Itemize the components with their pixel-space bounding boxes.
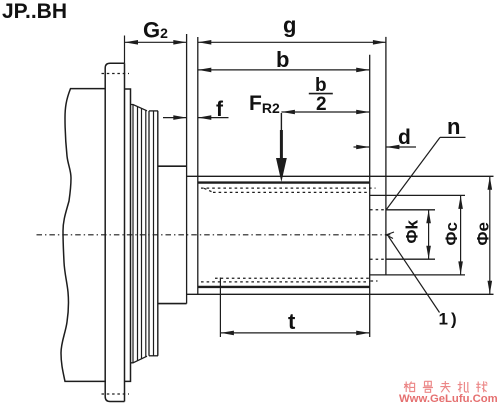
end disc top edge + phi-c extension [370, 194, 465, 196]
g right arrow [373, 40, 386, 45]
hidden bore line top outer [201, 187, 376, 189]
seal ring v2 [137, 107, 139, 361]
G2 extension above flange [124, 36, 126, 64]
washer left edge + G2 extension (x=186.6) [186, 34, 188, 304]
shaft end face + dimension extension (x=369.7) [369, 55, 371, 337]
washer right edge / cylinder left face + g,b extension (x=197.8) [197, 37, 199, 295]
seal block top edge [149, 110, 158, 112]
t left arrow [221, 331, 234, 336]
hub bottom edge [158, 303, 187, 305]
f right arrow (outside, points left) [198, 115, 211, 120]
svg-text:2: 2 [316, 94, 327, 115]
hidden keyway line top inner [213, 191, 370, 193]
force arrow F_R2 (filled) [276, 130, 287, 182]
phi-e top extension line (washer top edge, long) [187, 175, 494, 177]
center line (axis) [37, 234, 392, 236]
svg-text:JP..BH: JP..BH [2, 0, 67, 23]
force line F_R2 [280, 113, 282, 152]
t right arrow [356, 331, 369, 336]
svg-text:1): 1) [439, 310, 460, 329]
seal ring v4 [145, 110, 147, 357]
svg-text:f: f [216, 98, 224, 121]
seal ring v3 [141, 108, 143, 359]
g left arrow [198, 40, 211, 45]
mounting flange (tall rectangle) [105, 63, 124, 401]
dimension phi-k line [428, 210, 430, 259]
d right arrow (outside, points left) [386, 145, 399, 150]
n leader underline [440, 136, 466, 138]
dimension phi-e line [489, 176, 491, 294]
hub top edge [158, 165, 187, 167]
dimension b line [198, 69, 370, 71]
seal cone top slant [131, 105, 148, 111]
hidden bore in disc bottom (dots) [370, 258, 386, 260]
hidden keyway ramp top [204, 188, 213, 192]
dimension f line left tail [163, 117, 187, 119]
dimension f line right tail [198, 117, 229, 119]
b/2 right arrow [356, 110, 369, 115]
seal block mid line [153, 111, 155, 356]
hidden bore in disc top (dots) [370, 209, 386, 211]
dimension d line left tail [354, 146, 370, 148]
phi-k bottom arrow [426, 246, 431, 259]
svg-text:Φe: Φe [474, 222, 493, 245]
G2 left arrow [125, 40, 138, 45]
phi-k bottom extension line [386, 258, 435, 260]
svg-text:b: b [315, 75, 327, 96]
svg-text:d: d [398, 126, 411, 149]
svg-text:Φc: Φc [442, 222, 461, 245]
dimension b/2 line [281, 111, 369, 113]
svg-text:t: t [288, 309, 296, 334]
svg-text:n: n [447, 114, 460, 139]
hidden keyway line bottom inner [215, 277, 370, 279]
gearbox housing body outline with break line [61, 89, 106, 382]
label b/2 fraction bar [309, 93, 333, 95]
G2 right arrow [173, 40, 186, 45]
b left arrow [198, 68, 211, 73]
dimension G2 line [125, 41, 187, 43]
seal block bottom edge [149, 355, 158, 357]
hidden bore line bottom outer [201, 281, 370, 283]
note 1) leader arrow head [386, 232, 394, 239]
hidden bore dots bottom stub [371, 280, 378, 282]
note 1) leader diagonal [389, 237, 440, 313]
dimension d line right tail [386, 146, 416, 148]
end disc right face + g,d extension (x=385.9) [385, 37, 387, 275]
shaft cylinder bottom edge [198, 286, 370, 288]
phi-c top arrow [458, 196, 463, 209]
b/2 left arrow [282, 110, 295, 115]
phi-e bottom extension line (washer bottom edge, long) [187, 293, 494, 295]
flange hidden bolt line top (dotted) [102, 73, 130, 75]
seal ring v1 [132, 105, 134, 363]
svg-text:Www.GeLufu.Com: Www.GeLufu.Com [399, 393, 498, 405]
seal cone bottom slant [131, 356, 148, 363]
b right arrow [356, 68, 369, 73]
shaft cylinder top edge [198, 181, 370, 183]
ring 2 (bearing cover ring) [125, 89, 131, 381]
svg-text:g: g [283, 13, 296, 38]
svg-text:b: b [276, 47, 289, 72]
dimension t line [220, 332, 369, 334]
end disc bottom edge + phi-c extension [370, 274, 465, 276]
svg-text:G2: G2 [143, 18, 168, 43]
d left arrow (outside, points right) [356, 145, 369, 150]
phi-k top arrow [426, 210, 431, 223]
watermark chinese pseudo-glyphs (red) [404, 381, 487, 392]
f left arrow (outside, points right) [173, 115, 186, 120]
n leader diagonal [386, 137, 440, 210]
phi-k top extension line [386, 209, 435, 211]
seal block left edge [148, 111, 150, 356]
flange hidden bolt line bottom (dotted) [102, 393, 130, 395]
svg-text:Φk: Φk [403, 220, 422, 244]
phi-e top arrow [488, 177, 493, 190]
hub left edge [157, 111, 159, 356]
phi-e bottom arrow [488, 281, 493, 294]
phi-c bottom arrow [458, 261, 463, 274]
flange right edge [124, 63, 126, 401]
t left extension line [219, 278, 221, 338]
dimension g line [198, 41, 387, 43]
dimension phi-c line [460, 195, 462, 275]
svg-text:FR2: FR2 [249, 92, 280, 116]
